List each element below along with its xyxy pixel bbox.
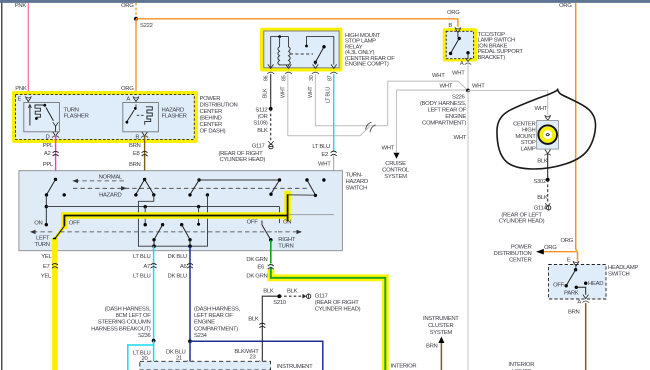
- svg-text:TURN: TURN: [35, 242, 50, 248]
- svg-text:BRN: BRN: [568, 310, 580, 316]
- svg-text:BRN: BRN: [129, 143, 141, 149]
- svg-text:WHT: WHT: [453, 135, 466, 141]
- relay switch (between pins 30 and 87): [305, 37, 334, 65]
- svg-text:E: E: [567, 258, 571, 264]
- svg-text:DK GRN: DK GRN: [246, 274, 267, 280]
- turn-hazard switch box: [19, 171, 368, 251]
- svg-text:SYSTEM: SYSTEM: [430, 330, 453, 336]
- left turn arrow label: [30, 230, 54, 248]
- hazard linkage dashed line: [73, 187, 308, 189]
- connector E7: [52, 264, 58, 269]
- svg-text:E6: E6: [257, 264, 265, 270]
- svg-text:WHT: WHT: [432, 73, 445, 79]
- left pole: PPL feed switch: [34, 178, 80, 227]
- svg-text:ORG: ORG: [121, 86, 134, 92]
- pin A entry arrow (ORG into PDC): [126, 96, 139, 104]
- svg-text:(REAR OF RIGHT: (REAR OF RIGHT: [219, 151, 264, 157]
- WHT wire inside box joining yellow path: [289, 214, 334, 216]
- svg-text:CONTROL: CONTROL: [382, 167, 410, 173]
- svg-text:PARK: PARK: [564, 290, 579, 296]
- NORMAL arrow: [72, 175, 126, 184]
- svg-text:YEL: YEL: [41, 254, 52, 260]
- svg-text:LEFT: LEFT: [36, 236, 50, 242]
- svg-text:(REAR OF LEFT: (REAR OF LEFT: [501, 213, 542, 219]
- svg-text:OFF: OFF: [69, 220, 81, 226]
- wire WHT relay pin85 routed right: [288, 74, 370, 136]
- ground G117 (rear of right cylinder head): [219, 141, 274, 163]
- svg-text:BLK: BLK: [287, 289, 298, 295]
- headlamp switch box: [549, 265, 639, 300]
- wire WHT S226 long vertical down: [453, 91, 468, 370]
- wire ORG horizontal S222 to TCC/stop lamp switch: [136, 10, 460, 27]
- svg-text:(DASH HARNESS,: (DASH HARNESS,: [194, 306, 241, 312]
- svg-text:STEERING COLUMN: STEERING COLUMN: [98, 320, 151, 326]
- center high mount stop lamp: [513, 115, 558, 152]
- svg-text:INSTRUMENT: INSTRUMENT: [277, 364, 313, 370]
- power distribution center label (right): [494, 245, 532, 264]
- svg-text:HAZARD: HAZARD: [162, 107, 184, 113]
- wire BRN headlamp switch to interior lights: [568, 303, 586, 370]
- wire WHT relay pin30 routed right and up to S226: [315, 73, 467, 126]
- connector A7: [151, 264, 157, 269]
- svg-text:FLASHER: FLASHER: [162, 114, 187, 120]
- wire DK GRN right turn output (highlighted): [246, 240, 385, 370]
- contact stubs from rail: [144, 207, 201, 227]
- svg-text:S236: S236: [138, 333, 152, 339]
- svg-text:ORG: ORG: [559, 3, 572, 9]
- svg-text:(DASH HARNESS,: (DASH HARNESS,: [105, 306, 152, 312]
- svg-text:D: D: [46, 134, 50, 140]
- svg-text:ON: ON: [34, 220, 42, 226]
- svg-text:CYLINDER HEAD): CYLINDER HEAD): [315, 306, 361, 312]
- svg-text:WHT: WHT: [439, 83, 452, 89]
- highlighted YEL path (left turn active): [53, 194, 288, 251]
- wire LT BLU S236 to instrument cluster pin 20: [133, 341, 157, 370]
- ground G114 (rear of left cylinder head): [499, 203, 551, 225]
- wire PPL flasher D to turn-hazard switch: [43, 135, 56, 179]
- svg-text:CLUSTER: CLUSTER: [428, 323, 453, 329]
- svg-text:A2: A2: [44, 151, 51, 157]
- svg-text:86: 86: [264, 75, 270, 81]
- svg-text:HIGH: HIGH: [522, 128, 536, 134]
- svg-text:CYLINDER HEAD): CYLINDER HEAD): [220, 157, 266, 163]
- wire DK BLU right lamp output: [168, 246, 190, 341]
- svg-text:WHT: WHT: [472, 84, 485, 90]
- svg-text:PNK: PNK: [15, 86, 27, 92]
- relay label: [345, 33, 395, 68]
- svg-text:STOP: STOP: [521, 140, 536, 146]
- hand-drawn annotation loop around lamp: [497, 90, 596, 169]
- svg-text:ENGINE: ENGINE: [445, 114, 466, 120]
- svg-text:DISTRIBUTION: DISTRIBUTION: [200, 102, 238, 108]
- svg-text:BLK: BLK: [263, 88, 269, 98]
- svg-text:BLK: BLK: [257, 128, 268, 134]
- wire WHT from TCC pin A down to S226: [452, 64, 468, 90]
- wire WHT branch to cruise control and S226: [397, 83, 468, 152]
- lamp exit arrow: [545, 150, 551, 156]
- inline connector on BLK wire: [259, 323, 265, 328]
- svg-text:PPL: PPL: [43, 143, 54, 149]
- svg-text:HARNESS BREAKOUT): HARNESS BREAKOUT): [91, 326, 151, 332]
- svg-text:30: 30: [309, 75, 315, 81]
- node S222: [134, 17, 153, 29]
- svg-text:LEFT REAR OF: LEFT REAR OF: [194, 313, 233, 319]
- wire BLK dashed S210 to ground G117b: [279, 295, 302, 297]
- svg-text:TURN: TURN: [278, 244, 293, 250]
- pin A exit: [577, 295, 589, 306]
- connector A6: [187, 264, 193, 269]
- svg-text:DK BLU: DK BLU: [168, 254, 188, 260]
- ground G117 (rear of right cylinder head, bottom): [303, 294, 361, 313]
- pin E entry arrow (PNK into PDC): [18, 96, 32, 104]
- svg-text:ENGINE: ENGINE: [194, 320, 215, 326]
- connector A2: [53, 151, 59, 156]
- svg-text:WHT: WHT: [452, 70, 465, 76]
- svg-text:ORG: ORG: [447, 10, 460, 16]
- step wire from center pole right contact down around (U path): [138, 195, 207, 246]
- svg-text:S234: S234: [194, 333, 208, 339]
- svg-text:CENTER: CENTER: [200, 122, 222, 128]
- wire BLK dashed S302 to G114: [537, 180, 548, 203]
- wire BLK/WHT instrument cluster pin 23 to S210: [234, 296, 279, 370]
- svg-text:E7: E7: [43, 264, 50, 270]
- left output arm to LT BLU: [152, 225, 162, 248]
- turn flasher U1: [24, 103, 89, 132]
- svg-text:LT BLU: LT BLU: [326, 87, 332, 103]
- svg-text:BLK: BLK: [537, 195, 548, 201]
- node S236: [91, 306, 155, 342]
- svg-text:PPL: PPL: [43, 162, 54, 168]
- wire BRN flasher B to turn-hazard switch: [129, 135, 145, 179]
- svg-text:POWER: POWER: [511, 245, 532, 251]
- node S210: [263, 289, 297, 306]
- svg-text:21: 21: [176, 355, 182, 361]
- svg-text:S109): S109): [253, 121, 268, 127]
- svg-text:OFF: OFF: [247, 220, 259, 226]
- wire WHT S226 to center high mount stop lamp: [468, 91, 548, 116]
- svg-text:(REAR OF RIGHT: (REAR OF RIGHT: [315, 300, 360, 306]
- svg-text:BLK: BLK: [248, 317, 259, 323]
- TCC/stop lamp switch label: [478, 32, 524, 61]
- svg-text:INTERIOR: INTERIOR: [391, 363, 417, 369]
- hazard flasher U2: [123, 103, 187, 132]
- svg-text:G117: G117: [252, 143, 265, 149]
- TCC switch contacts: [449, 37, 470, 59]
- svg-text:ORG: ORG: [544, 245, 557, 251]
- svg-text:G114: G114: [534, 205, 548, 211]
- pin E entry: [567, 258, 579, 270]
- svg-text:SWITCH: SWITCH: [608, 272, 629, 278]
- wire BLK dashed S112 to ground G117: [257, 109, 270, 142]
- svg-text:SYSTEM: SYSTEM: [384, 174, 407, 180]
- svg-text:WHT: WHT: [318, 161, 331, 167]
- svg-text:BRN: BRN: [426, 343, 438, 349]
- svg-text:COMPARTMENT): COMPARTMENT): [194, 326, 238, 332]
- svg-text:ORG: ORG: [121, 3, 134, 9]
- svg-text:DISTRIBUTION: DISTRIBUTION: [494, 251, 532, 257]
- svg-text:S222: S222: [140, 23, 153, 29]
- wire ORG dashed from top to splice S222: [121, 3, 136, 19]
- svg-text:LAMP: LAMP: [521, 147, 536, 153]
- wire PNK from fuse (top left): [15, 3, 29, 97]
- instrument cluster dashed box: [140, 361, 313, 370]
- svg-text:HEADLAMP: HEADLAMP: [608, 265, 638, 271]
- svg-text:WHT: WHT: [534, 106, 547, 112]
- svg-text:RIGHT: RIGHT: [278, 237, 296, 243]
- svg-text:PNK: PNK: [15, 3, 27, 9]
- svg-text:DK GRN: DK GRN: [246, 257, 267, 263]
- svg-text:A: A: [460, 61, 464, 67]
- node S234: [188, 306, 240, 343]
- wire ORG right vertical from top to power distribution center / headlamp switch: [536, 3, 578, 261]
- svg-text:A7: A7: [143, 264, 150, 270]
- svg-text:INTERIOR: INTERIOR: [508, 362, 534, 368]
- center pole: BRN hazard feed switch: [134, 178, 155, 197]
- interior lights labels (bottom): [391, 363, 417, 370]
- svg-text:TURN-: TURN-: [346, 172, 363, 178]
- svg-text:LEFT REAR OF: LEFT REAR OF: [427, 108, 466, 114]
- svg-text:S302: S302: [533, 179, 546, 185]
- right output arm to DK BLU: [182, 225, 192, 248]
- thin rail from yellow top to right-pole contact: [288, 194, 316, 196]
- HAZARD arrow: [99, 186, 127, 198]
- wire LT BLU relay pin 87 down to connector E2: [312, 74, 333, 158]
- svg-text:MOUNT: MOUNT: [515, 134, 536, 140]
- svg-text:S210: S210: [273, 300, 287, 306]
- svg-text:HAZARD: HAZARD: [99, 192, 121, 198]
- right turn switch arm and OFF/ON labels: [247, 220, 292, 242]
- svg-text:OFF: OFF: [553, 282, 565, 288]
- right turn arrow label: [278, 230, 302, 250]
- svg-text:WHT: WHT: [381, 146, 394, 152]
- svg-text:B: B: [135, 134, 139, 140]
- svg-text:OF DASH): OF DASH): [200, 128, 226, 134]
- node S112: [253, 107, 272, 127]
- svg-text:CENTER: CENTER: [509, 258, 531, 264]
- svg-text:COMPARTMENT): COMPARTMENT): [422, 121, 466, 127]
- top toolbar strip: [0, 0, 650, 3]
- wire BLK lamp to S302: [537, 154, 548, 180]
- svg-text:WHT: WHT: [308, 86, 314, 98]
- wire LT BLU left lamp output: [133, 246, 154, 341]
- pin A exit arrow: [460, 58, 471, 67]
- svg-text:(BODY HARNESS,: (BODY HARNESS,: [420, 101, 467, 107]
- svg-text:ORG: ORG: [560, 238, 573, 244]
- node S226: [420, 84, 485, 127]
- svg-text:87: 87: [327, 75, 333, 81]
- svg-text:LT BLU: LT BLU: [133, 274, 151, 280]
- svg-text:DK BLU: DK BLU: [168, 274, 188, 280]
- svg-text:A: A: [577, 299, 581, 305]
- svg-text:ENGINE COMPT): ENGINE COMPT): [345, 62, 389, 68]
- svg-text:8CM LEFT OF: 8CM LEFT OF: [116, 313, 152, 319]
- svg-text:CRUISE: CRUISE: [385, 161, 406, 167]
- svg-text:YEL: YEL: [41, 274, 52, 280]
- svg-text:CENTER: CENTER: [513, 121, 535, 127]
- wire LT BLU S236 branch left down: [128, 341, 154, 370]
- common rail y=206.6: [46, 205, 279, 223]
- wire BRN to instrument cluster system (bottom center): [423, 316, 459, 370]
- connector E2: [331, 151, 337, 156]
- svg-text:E: E: [18, 96, 22, 102]
- relay pin numbers (rotated): [264, 75, 334, 81]
- connector E6: [268, 265, 274, 270]
- svg-text:85: 85: [282, 75, 288, 81]
- svg-text:HEAD: HEAD: [588, 281, 603, 287]
- svg-text:S112: S112: [255, 108, 267, 114]
- power distribution center box (yellow highlighted, behind center of dash): [12, 91, 198, 143]
- relay wire color labels (rotated): [263, 86, 332, 103]
- svg-text:BLK: BLK: [263, 289, 274, 295]
- svg-text:BLK: BLK: [537, 159, 548, 165]
- svg-text:TURN: TURN: [64, 107, 79, 113]
- svg-text:FLASHER: FLASHER: [64, 114, 89, 120]
- lower linkage dashed line: [60, 231, 277, 233]
- inline connector on WHT run: [366, 122, 376, 132]
- svg-text:HAZARD: HAZARD: [346, 179, 368, 185]
- svg-text:23: 23: [250, 355, 257, 361]
- svg-text:A: A: [126, 96, 130, 102]
- PDC label: [200, 96, 238, 135]
- relay pin exit arrows 86 85 30 87: [267, 64, 337, 74]
- svg-text:(OR: (OR: [258, 114, 268, 120]
- svg-text:LT BLU: LT BLU: [133, 254, 151, 260]
- node S302: [533, 178, 549, 185]
- high mount stop lamp relay (yellow highlighted): [260, 28, 342, 72]
- hazard flasher pin B exit: [135, 132, 148, 140]
- wire YEL left turn output: [41, 239, 55, 370]
- headlamp switch contacts: [553, 268, 603, 296]
- svg-text:LT BLU: LT BLU: [312, 144, 330, 150]
- svg-text:G117: G117: [315, 294, 328, 300]
- wire DK BLU S234 branch right down: [190, 341, 323, 370]
- wire BLK relay pin 86 to S112: [270, 74, 272, 109]
- svg-text:B: B: [448, 23, 452, 29]
- svg-text:E2: E2: [321, 152, 328, 158]
- svg-text:CENTER: CENTER: [200, 109, 222, 115]
- right pole rail with contacts: [188, 178, 325, 197]
- wire ORG vertical S222 down to hazard flasher pin A: [121, 19, 136, 97]
- pin B entry arrow: [455, 27, 461, 37]
- connector E8: [142, 151, 148, 156]
- relay coil (between pins 86 and 85): [271, 35, 313, 67]
- svg-text:SWITCH: SWITCH: [346, 185, 367, 191]
- turn flasher pin D exit: [46, 132, 60, 140]
- svg-text:BRN: BRN: [129, 162, 141, 168]
- svg-text:WHT: WHT: [280, 86, 286, 98]
- svg-text:ON: ON: [283, 220, 291, 226]
- wire WHT below E2 into turn-hazard switch: [318, 155, 334, 214]
- svg-text:POWER: POWER: [200, 96, 221, 102]
- svg-text:(BEHIND: (BEHIND: [200, 115, 222, 121]
- svg-text:NORMAL: NORMAL: [99, 175, 123, 181]
- wire DK BLU S234 to instrument cluster pin 21: [166, 341, 193, 370]
- left page border: [1, 3, 3, 370]
- svg-text:CYLINDER HEAD): CYLINDER HEAD): [499, 219, 545, 225]
- svg-text:INSTRUMENT: INSTRUMENT: [423, 316, 459, 322]
- svg-text:BRACKET): BRACKET): [478, 55, 506, 61]
- svg-text:E8: E8: [133, 151, 141, 157]
- svg-text:S226: S226: [452, 95, 466, 101]
- svg-text:A6: A6: [180, 264, 188, 270]
- TCC/stop lamp switch (yellow highlighted): [443, 23, 477, 62]
- cruise control system arrow: [381, 146, 409, 180]
